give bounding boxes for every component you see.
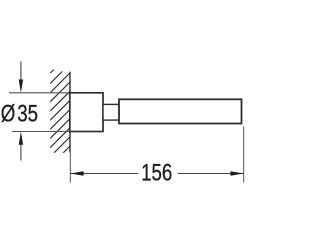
dimension extension line, bottom of flange (left of wall) — [12, 131, 70, 133]
wall face line — [69, 72, 71, 153]
flange (wall plate) — [70, 93, 103, 132]
label Ø 35 — [1, 100, 16, 127]
right arrowhead — [230, 171, 243, 175]
left arrowhead — [70, 171, 83, 175]
156 dimension line, left segment — [70, 173, 138, 175]
156 dimension line, right segment — [178, 173, 244, 175]
svg-text:35: 35 — [17, 100, 38, 127]
svg-text:Ø: Ø — [1, 100, 16, 127]
dimension extension line, top of flange (left of wall) — [9, 92, 70, 94]
hatch stub at wall top-left — [50, 70, 54, 74]
label 156 — [141, 159, 172, 186]
wall hatching — [48, 64, 70, 168]
svg-text:156: 156 — [141, 159, 172, 186]
extension line below bar end, right of 156 dim — [243, 126, 245, 182]
extension line below wall, left of 156 dim — [69, 149, 71, 183]
diameter dimension arrow, bottom — [19, 132, 23, 161]
bar (holder arm) — [119, 99, 242, 123]
neck — [103, 104, 119, 120]
diameter dimension arrow, top — [19, 61, 23, 92]
